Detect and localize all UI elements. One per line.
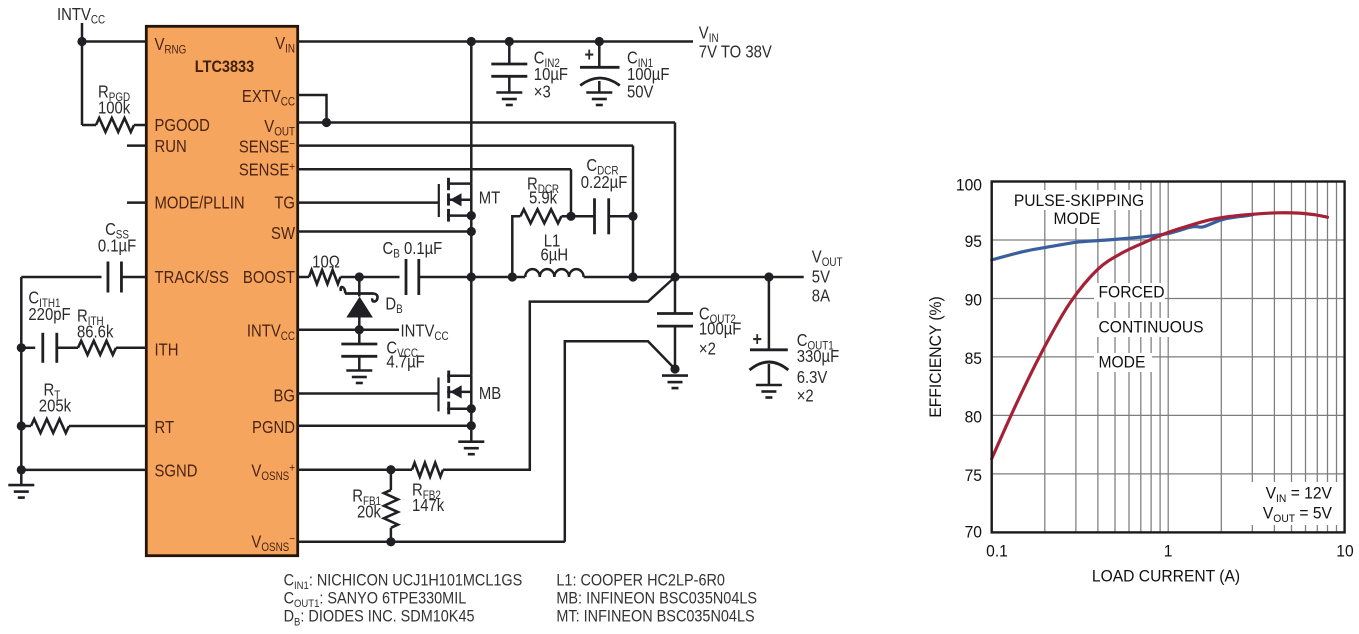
capacitor CIN1 top lead <box>598 42 601 68</box>
note COUT1 part <box>284 590 467 611</box>
note MT part <box>556 608 754 626</box>
svg-text:70: 70 <box>965 523 982 542</box>
svg-text:LTC3833: LTC3833 <box>195 58 255 76</box>
graph y tick labels <box>956 176 982 195</box>
resistor RDCR left vertical <box>512 216 520 277</box>
junction DB anode / CVCC <box>355 325 364 334</box>
svg-text:+: + <box>753 328 762 350</box>
pin label BG <box>274 386 295 405</box>
pin label SW <box>271 224 296 243</box>
svg-text:MT: MT <box>479 188 501 207</box>
IC title LTC3833 <box>195 58 255 76</box>
svg-text:100µF: 100µF <box>699 319 742 338</box>
wire MB drain vertical from SW node <box>470 277 473 376</box>
svg-text:×2: ×2 <box>797 386 814 405</box>
label CIN2 value 10uF <box>534 65 568 84</box>
diode DB schottky cathode bar <box>345 292 374 295</box>
resistor RT <box>31 419 69 433</box>
resistor RPGD leads <box>82 124 96 127</box>
label CITH1 <box>28 288 60 310</box>
pin label VOSNS- <box>251 532 295 554</box>
ground COUT1 <box>756 384 782 387</box>
junction SGND row on bus <box>17 465 26 474</box>
svg-text:80: 80 <box>965 408 982 427</box>
svg-text:CONTINUOUS: CONTINUOUS <box>1099 318 1204 337</box>
pin label RT <box>155 418 175 437</box>
graph gridlines <box>992 182 1345 533</box>
svg-text:PULSE-SKIPPING: PULSE-SKIPPING <box>1014 191 1144 210</box>
svg-text:100: 100 <box>956 176 982 195</box>
wire BG to MB gate <box>298 392 439 395</box>
label RT value 205k <box>39 396 72 415</box>
junction SW pin on MT vertical <box>467 227 476 236</box>
pin label SGND <box>155 461 198 480</box>
resistor RFB1 bottom lead <box>390 528 393 542</box>
transistor MB source lead <box>447 407 471 410</box>
svg-text:86.6k: 86.6k <box>77 322 114 341</box>
wire 10ohm to CB <box>341 276 400 279</box>
svg-text:7V TO 38V: 7V TO 38V <box>699 42 772 61</box>
wire CDCR to SENSE- vertical <box>609 215 633 218</box>
svg-text:SENSE+: SENSE+ <box>239 160 295 179</box>
svg-text:5V: 5V <box>812 267 830 286</box>
svg-text:5.9k: 5.9k <box>529 188 558 207</box>
label COUT2 value 100uF <box>699 319 742 338</box>
capacitor COUT1 curved plate <box>750 362 789 370</box>
label CITH1 value 220pF <box>28 305 70 324</box>
pin label VRNG <box>155 35 187 57</box>
svg-text:0.1µF: 0.1µF <box>98 236 136 255</box>
label 10 ohm <box>312 252 340 271</box>
junction MT source <box>467 211 476 220</box>
wire RUN stub <box>127 144 146 147</box>
capacitor COUT1 top plate <box>750 348 788 351</box>
pin label ITH <box>155 340 179 359</box>
junction L1/SENSE- <box>628 272 637 281</box>
transistor MT drain lead <box>447 182 471 185</box>
wire RT row left segment <box>21 425 31 428</box>
note MB part <box>556 590 757 608</box>
label CVCC <box>386 338 418 360</box>
pin label VIN <box>275 34 295 56</box>
pin label BOOST <box>243 268 295 287</box>
capacitor COUT2 top lead <box>674 277 677 314</box>
svg-text:100µF: 100µF <box>627 65 670 84</box>
wire ITH row left segment <box>21 347 35 350</box>
svg-text:0.22µF: 0.22µF <box>581 173 628 192</box>
wire SENSE+ horizontal <box>298 168 571 171</box>
label VOUT 5V <box>812 267 830 286</box>
junction PGND <box>467 421 476 430</box>
resistor RDCR <box>520 209 561 223</box>
svg-text:PGOOD: PGOOD <box>155 116 210 135</box>
transistor MB channel segments <box>447 371 450 383</box>
svg-text:FORCED: FORCED <box>1099 283 1165 302</box>
svg-text:BOOST: BOOST <box>243 268 295 287</box>
svg-text:10Ω: 10Ω <box>312 252 340 271</box>
label COUT1 x2 <box>797 386 814 405</box>
svg-text:MB: INFINEON BSC035N04LS: MB: INFINEON BSC035N04LS <box>556 590 757 608</box>
svg-text:6µH: 6µH <box>541 245 569 264</box>
svg-text:10: 10 <box>1336 542 1353 561</box>
label CIN1 voltage 50V <box>627 82 654 101</box>
pin label MODE/PLLIN <box>155 193 245 212</box>
capacitor CITH1 <box>41 333 44 363</box>
pin label PGOOD <box>155 116 210 135</box>
pin label VOUT <box>264 117 295 139</box>
label VIN range 7V TO 38V <box>699 42 772 61</box>
label RFB1 value 20k <box>357 502 382 521</box>
capacitor CVCC bottom lead <box>358 356 361 370</box>
svg-text:20k: 20k <box>357 502 382 521</box>
graph label forced continuous mode <box>1099 283 1165 302</box>
wire MB source vertical to ground <box>470 376 473 442</box>
svg-text:ITH: ITH <box>155 340 179 359</box>
label CDCR <box>586 156 618 178</box>
capacitor COUT1 bottom lead <box>768 364 771 385</box>
capacitor COUT2 <box>657 312 693 315</box>
label COUT1 <box>797 331 834 353</box>
wire SENSE+ vertical <box>570 169 573 216</box>
ground MB/PGND <box>458 440 484 443</box>
ground CVCC <box>346 369 372 372</box>
transistor MT source lead <box>447 214 471 217</box>
wire CB to SW node <box>419 276 513 279</box>
inductor L1 <box>525 269 583 277</box>
junction SENSE+/RDCR/CDCR <box>566 212 575 221</box>
junction SW node below MT <box>467 272 476 281</box>
graph x axis title LOAD CURRENT (A) <box>1092 567 1240 586</box>
pin label EXTVCC <box>242 87 295 109</box>
svg-text:TRACK/SS: TRACK/SS <box>155 268 230 287</box>
svg-text:PGND: PGND <box>252 418 295 437</box>
wire MT source vertical to SW node <box>470 184 473 277</box>
svg-text:L1: COOPER HC2LP-6R0: L1: COOPER HC2LP-6R0 <box>556 571 725 589</box>
diode DB triangle <box>346 297 373 318</box>
svg-text:85: 85 <box>965 349 982 368</box>
svg-text:75: 75 <box>965 466 982 485</box>
wire VRNG <box>82 40 146 43</box>
svg-text:CB 0.1µF: CB 0.1µF <box>383 239 443 261</box>
note DB part <box>284 608 475 629</box>
svg-text:EFFICIENCY (%): EFFICIENCY (%) <box>926 296 945 417</box>
svg-text:8A: 8A <box>812 286 830 305</box>
wire SW pin <box>298 230 472 233</box>
label VOUT <box>812 247 843 269</box>
junction VIN/CIN2 <box>505 37 514 46</box>
junction SENSE-/CDCR <box>628 212 637 221</box>
junction RT row on bus <box>17 421 26 430</box>
wire left bus vertical <box>20 277 23 484</box>
curve forced continuous mode (red) <box>992 213 1328 459</box>
label MT <box>479 188 501 207</box>
svg-text:50V: 50V <box>627 82 654 101</box>
node INTVCC label top-left <box>57 5 105 27</box>
graph label background masks <box>1009 190 1210 372</box>
capacitor CIN2 bottom lead <box>508 76 511 92</box>
transistor MB gate bar <box>437 378 439 412</box>
diode DB anode lead <box>358 318 361 330</box>
resistor RFB1 <box>384 490 398 528</box>
svg-text:330µF: 330µF <box>797 347 840 366</box>
junction VIN/MT drain <box>467 37 476 46</box>
pin label VOSNS+ <box>251 461 295 483</box>
transistor MB body lead with arrow <box>447 391 471 394</box>
svg-text:100k: 100k <box>98 98 131 117</box>
wire SW line to L1 <box>512 276 525 279</box>
capacitor COUT2 bottom lead <box>674 326 677 369</box>
svg-text:×3: ×3 <box>534 82 551 101</box>
resistor RFB2 <box>412 463 443 477</box>
ground left bus <box>8 484 34 487</box>
IC U1 LTC3833 body <box>146 26 297 555</box>
wire SGND row <box>21 469 146 472</box>
label CIN2 x3 <box>534 82 551 101</box>
wire VOUT rail drop to output node <box>674 123 677 278</box>
svg-text:TG: TG <box>274 193 295 212</box>
junction DB cathode on BOOST row <box>355 272 364 281</box>
svg-text:DB: DIODES INC. SDM10K45: DB: DIODES INC. SDM10K45 <box>284 608 475 629</box>
resistor RFB1 top lead <box>390 470 393 490</box>
svg-text:147k: 147k <box>412 496 445 515</box>
label CDCR value 0.22uF <box>581 173 628 192</box>
wire PGND row <box>298 424 472 427</box>
resistor RITH <box>78 341 116 355</box>
note CIN1 part <box>284 571 523 592</box>
wire VIN rail <box>298 40 693 43</box>
capacitor CIN1 bottom lead <box>598 81 601 93</box>
wire VOSNS- vertical and diagonal to COUT2 ground <box>565 341 675 542</box>
resistor RPGD <box>96 118 134 132</box>
ground CIN2 <box>496 91 522 94</box>
graph y axis title EFFICIENCY (%) <box>926 296 945 417</box>
pin label SENSE- <box>239 137 295 156</box>
wire CITH1 to RITH <box>57 347 78 350</box>
svg-text:×2: ×2 <box>699 339 716 358</box>
graph border <box>992 182 1345 533</box>
label COUT2 x2 <box>699 339 716 358</box>
junction INTVCC/VRNG <box>77 37 86 46</box>
junction ITH row on bus <box>17 343 26 352</box>
junction MB source <box>467 404 476 413</box>
wire MODE/PLLIN stub <box>127 201 146 204</box>
resistor 10 ohm lead <box>298 276 309 279</box>
wire EXTVCC to VOUT rail <box>298 95 327 123</box>
svg-text:MODE: MODE <box>1054 209 1101 228</box>
wire MT drain vertical from VIN <box>470 42 473 184</box>
label L1 <box>544 231 561 250</box>
resistor 10 ohm boost <box>309 270 341 284</box>
label CIN2 <box>534 48 560 70</box>
svg-text:MODE/PLLIN: MODE/PLLIN <box>155 193 245 212</box>
wire SENSE- horizontal <box>298 144 633 147</box>
label CIN1 value 100uF <box>627 65 670 84</box>
transistor MB drain lead <box>447 375 471 378</box>
label CVCC value 4.7uF <box>386 352 424 371</box>
wire VOSNS+ row <box>298 468 412 471</box>
transistor MT body lead with arrow <box>447 199 471 202</box>
svg-text:205k: 205k <box>39 396 72 415</box>
pin label SENSE+ <box>239 160 295 179</box>
svg-text:LOAD CURRENT (A): LOAD CURRENT (A) <box>1092 567 1240 586</box>
svg-text:RT: RT <box>155 418 175 437</box>
pin label TRACK/SS <box>155 268 230 287</box>
label CIN1 <box>627 48 653 70</box>
curve pulse-skipping mode (blue) <box>992 215 1253 260</box>
capacitor CSS <box>107 262 110 293</box>
svg-text:4.7µF: 4.7µF <box>386 352 424 371</box>
svg-text:RUN: RUN <box>155 137 187 156</box>
label CSS <box>105 220 129 242</box>
wire TRACK/SS row left <box>21 276 101 279</box>
svg-text:SW: SW <box>271 224 296 243</box>
capacitor CVCC <box>341 343 377 346</box>
svg-text:+: + <box>585 44 594 66</box>
label RFB2 value 147k <box>412 496 445 515</box>
junction COUT2 ground node <box>670 364 679 373</box>
wire INTVCC pin row <box>298 328 399 331</box>
transistor MT channel segments <box>447 178 450 190</box>
label INTVCC mid <box>401 321 449 343</box>
svg-text:MB: MB <box>479 384 501 403</box>
junction EXTVCC on VOUT rail <box>322 118 331 127</box>
wire INTVCC vertical to PGOOD row <box>81 23 84 125</box>
label VOUT 8A <box>812 286 830 305</box>
wire output line <box>584 276 804 279</box>
label CSS value 0.1uF <box>98 236 136 255</box>
note L1 part <box>556 571 725 589</box>
wire VOUT rail <box>298 121 675 124</box>
capacitor CIN1 polarity + <box>585 44 594 66</box>
junction output/VOUT drop <box>670 272 679 281</box>
label COUT1 value 330uF <box>797 347 840 366</box>
label L1 value 6uH <box>541 245 569 264</box>
graph x tick labels <box>986 542 1008 561</box>
label COUT1 voltage 6.3V <box>797 368 828 387</box>
wire RITH to ITH pin <box>116 347 146 350</box>
wire CSS to TRACK/SS pin <box>121 276 146 279</box>
label RFB2 <box>412 480 441 502</box>
capacitor CIN1 top plate <box>580 66 620 69</box>
svg-text:6.3V: 6.3V <box>797 368 828 387</box>
junction RDCR tap on SW line <box>508 272 517 281</box>
label CB 0.1uF <box>383 239 443 261</box>
junction output/COUT1 <box>764 272 773 281</box>
diode DB cathode lead <box>358 277 361 297</box>
svg-text:MODE: MODE <box>1099 353 1146 372</box>
pin label RUN <box>155 137 187 156</box>
svg-text:95: 95 <box>965 232 982 251</box>
svg-text:SGND: SGND <box>155 461 198 480</box>
capacitor CB <box>405 259 408 295</box>
label RDCR value 5.9k <box>529 188 558 207</box>
svg-text:SENSE−: SENSE− <box>239 137 295 156</box>
capacitor CIN2 <box>491 63 527 66</box>
label RPGD <box>98 82 130 104</box>
label DB <box>385 294 402 316</box>
svg-text:VIN = 12V: VIN = 12V <box>1266 484 1332 505</box>
svg-text:90: 90 <box>965 291 982 310</box>
ground CIN1 <box>586 91 612 94</box>
junction VIN/CIN1 <box>595 37 604 46</box>
label RFB1 <box>352 486 381 508</box>
svg-text:MT: INFINEON BSC035N04LS: MT: INFINEON BSC035N04LS <box>556 608 754 626</box>
svg-text:10µF: 10µF <box>534 65 568 84</box>
junction RFB1 bottom <box>386 537 395 546</box>
capacitor CIN1 curved plate <box>580 78 620 86</box>
pin label INTVCC <box>247 321 295 343</box>
graph conditions box <box>1246 482 1339 525</box>
svg-text:BG: BG <box>274 386 295 405</box>
junction RFB1 top <box>386 465 395 474</box>
label VIN <box>699 23 719 45</box>
wire SENSE- vertical <box>632 146 635 277</box>
capacitor COUT1 polarity + <box>753 328 762 350</box>
capacitor CVCC top lead <box>358 330 361 344</box>
label RITH <box>77 306 104 328</box>
capacitor CDCR <box>593 198 596 234</box>
ground COUT2 <box>662 374 688 377</box>
svg-text:0.1: 0.1 <box>986 542 1008 561</box>
label COUT2 <box>699 304 736 326</box>
wire RT to RT pin <box>69 425 146 428</box>
label MB <box>479 384 501 403</box>
transistor MT gate bar <box>438 184 440 217</box>
svg-text:1: 1 <box>1164 542 1173 561</box>
wire RDCR to CDCR <box>561 215 594 218</box>
capacitor CIN2 top lead <box>508 42 511 65</box>
label RT <box>44 380 61 402</box>
label RITH value 86.6k <box>77 322 114 341</box>
pin label TG <box>274 193 295 212</box>
capacitor COUT1 top lead <box>768 277 771 350</box>
svg-text:220pF: 220pF <box>28 305 70 324</box>
pin label PGND <box>252 418 295 437</box>
wire TG to MT gate <box>298 201 439 204</box>
wire RFB2 to sense corner <box>443 277 675 470</box>
graph label pulse-skipping mode <box>1014 191 1144 210</box>
svg-text:VOUT = 5V: VOUT = 5V <box>1263 504 1332 525</box>
label RPGD value 100k <box>98 98 131 117</box>
label RDCR <box>527 174 559 196</box>
wire VOSNS- row <box>298 541 565 544</box>
